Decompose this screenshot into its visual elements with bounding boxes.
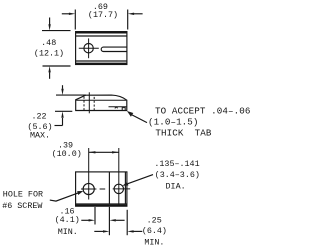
bottom view slot left line: [108, 172, 110, 204]
dim .48 bottom extension line: [43, 65, 71, 67]
dim .69 left extension line: [74, 10, 76, 30]
bottom view outline: [76, 172, 127, 206]
top view thick top edge: [75, 31, 127, 33]
tab leader arrow: [127, 111, 147, 123]
svg-text:.22: .22: [31, 112, 46, 122]
svg-text:HOLE FOR: HOLE FOR: [3, 190, 43, 200]
svg-text:MIN.: MIN.: [144, 237, 164, 247]
side view outline: [76, 95, 127, 110]
side view tab notch: [122, 108, 125, 111]
bottom view thick bottom edge: [75, 204, 127, 206]
top view hole crosshair horizontal: [79, 47, 99, 49]
dia leader: [122, 175, 153, 186]
side view hidden hole line left: [83, 97, 85, 111]
svg-text:(4.1): (4.1): [55, 215, 80, 225]
svg-text:.48: .48: [41, 38, 56, 48]
svg-text:.25: .25: [147, 216, 162, 226]
screw hole leader: [50, 191, 84, 201]
dim .16 left arrow: [81, 219, 95, 221]
svg-text:TO ACCEPT .04–.06: TO ACCEPT .04–.06: [155, 105, 250, 116]
svg-text:THICK TAB: THICK TAB: [155, 128, 212, 139]
bottom view inner bottom line: [76, 203, 127, 205]
svg-text:(6.4): (6.4): [142, 226, 167, 236]
dim .22 bottom extension line: [55, 110, 72, 112]
svg-text:(17.7): (17.7): [88, 10, 118, 20]
screw hole vertical centerline: [88, 148, 90, 200]
bottom view slot right line: [124, 172, 126, 204]
dim .16 right / .25 left extension line: [108, 207, 110, 235]
svg-text:(10.0): (10.0): [52, 149, 82, 159]
svg-text:(1.0–1.5): (1.0–1.5): [148, 116, 199, 127]
bottom view screw hole circle: [83, 183, 94, 194]
dim .39 line with inside arrows: [89, 151, 119, 153]
svg-text:(12.1): (12.1): [34, 48, 64, 58]
top view outline: [76, 32, 127, 65]
dim .25 right extension line: [126, 210, 128, 235]
dim .69 right arrow: [128, 13, 143, 15]
svg-text:.135–.141: .135–.141: [154, 159, 199, 169]
dim .48 bottom arrow: [48, 66, 50, 79]
svg-text:DIA.: DIA.: [166, 182, 186, 192]
dim .22 top arrow: [61, 85, 63, 95]
side view small detent mark: [115, 107, 118, 109]
svg-text:#6 SCREW: #6 SCREW: [2, 201, 43, 211]
top view inner bottom line: [76, 60, 127, 62]
dim .16 left extension line: [94, 207, 96, 225]
dim .22 bottom arrow and leader: [55, 111, 64, 125]
dim .22 top extension line: [56, 94, 86, 96]
top view inner top line: [76, 35, 127, 37]
dim .48 top extension line: [42, 30, 71, 32]
side view inner tangent line: [76, 99, 126, 101]
top view hole circle: [84, 44, 93, 53]
bottom view small hole circle: [114, 184, 123, 193]
side view centerline: [88, 92, 90, 113]
dim .69 left arrow: [62, 13, 76, 15]
svg-text:MAX.: MAX.: [30, 131, 50, 141]
dim .48 top arrow: [48, 18, 50, 31]
top view thick bottom edge: [75, 63, 127, 65]
dim .25 left arrow: [94, 230, 109, 232]
svg-text:(3.4–3.6): (3.4–3.6): [155, 170, 200, 180]
top view hole crosshair vertical: [88, 38, 90, 58]
top view slot: [101, 47, 127, 51]
dim .25 right arrow: [127, 230, 142, 232]
dim .16 right arrow: [109, 219, 124, 221]
dim .69 right extension line: [127, 10, 129, 30]
small hole vertical centerline: [118, 148, 120, 206]
side view tab slot roof line: [109, 106, 127, 108]
holes horizontal centerline: [81, 188, 130, 190]
side view hidden hole line right: [93, 97, 95, 110]
svg-text:MIN.: MIN.: [58, 227, 78, 237]
